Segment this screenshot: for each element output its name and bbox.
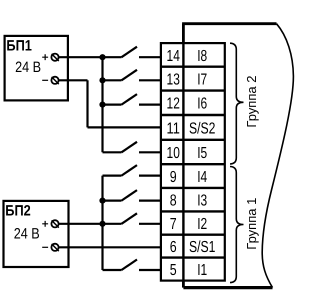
svg-text:24 В: 24 В — [15, 59, 41, 76]
svg-text:6: 6 — [170, 239, 177, 256]
svg-text:I6: I6 — [197, 96, 207, 113]
switch blade row 9 — [122, 165, 138, 176]
svg-text:I8: I8 — [197, 48, 207, 65]
wire switch to terminal 13 — [139, 79, 161, 81]
junction dot row 7 — [99, 221, 105, 227]
wire switch to terminal 7 — [139, 223, 161, 225]
switch blade row 12 — [122, 94, 138, 105]
svg-text:7: 7 — [170, 216, 177, 233]
wire bus bend to switch row 5 — [103, 269, 122, 271]
terminal block outer rect — [161, 43, 225, 281]
svg-text:12: 12 — [167, 96, 180, 113]
wire switch to terminal 12 — [139, 103, 161, 105]
wire row 11 (S/S2) — [88, 126, 161, 128]
minus sign BP1 — [42, 79, 48, 81]
svg-text:Группа 1: Группа 1 — [244, 198, 259, 250]
svg-text:I1: I1 — [197, 262, 207, 279]
terminal block column divider — [182, 43, 184, 281]
wire BP2+ to bus and switch row 7 — [59, 223, 122, 225]
wire switch to terminal 10 — [139, 151, 161, 153]
svg-text:I2: I2 — [197, 216, 207, 233]
wire bus to switch row 8 — [103, 200, 122, 202]
switch blade row 10 — [122, 142, 138, 153]
wire switch to terminal 9 — [139, 175, 161, 177]
bus group 2 vertical — [101, 57, 103, 152]
svg-text:11: 11 — [167, 120, 180, 137]
svg-text:S/S1: S/S1 — [189, 239, 215, 256]
svg-text:14: 14 — [167, 48, 180, 65]
plus sign BP2 — [42, 221, 48, 227]
switch blade row 8 — [122, 190, 138, 201]
svg-text:13: 13 — [167, 72, 180, 89]
svg-text:БП2: БП2 — [5, 202, 31, 219]
svg-text:Группа 2: Группа 2 — [244, 76, 259, 128]
terminal + of BP2 — [51, 220, 58, 227]
svg-text:9: 9 — [170, 169, 177, 186]
brace group 1 — [230, 167, 244, 283]
svg-text:8: 8 — [170, 193, 177, 210]
device torn edge curve — [262, 24, 293, 288]
wire bus to switch row 12 — [103, 103, 122, 105]
switch blade row 13 — [122, 70, 138, 81]
device outline top vertical — [182, 24, 185, 43]
terminal - of BP2 — [51, 244, 58, 251]
device outline top thick line — [182, 22, 276, 25]
svg-text:I3: I3 — [197, 193, 207, 210]
switch blade row 7 — [122, 213, 138, 224]
junction dot row 8 — [99, 198, 105, 204]
svg-text:I5: I5 — [197, 145, 207, 162]
brace group 2 — [230, 43, 244, 164]
minus sign BP2 — [42, 246, 48, 248]
power supply BP2 box — [4, 201, 69, 267]
terminal block row dividers — [161, 67, 225, 258]
junction dot row 12 — [99, 102, 105, 108]
wire BP2- to terminal 6 (S/S1) — [59, 246, 161, 248]
wire bus bend to switch row 10 — [103, 151, 122, 153]
device outline bottom vertical — [182, 281, 185, 288]
bus group 1 vertical — [101, 176, 103, 270]
svg-text:5: 5 — [170, 262, 177, 279]
switch blade row 5 — [122, 260, 138, 271]
svg-text:БП1: БП1 — [6, 38, 32, 55]
svg-text:S/S2: S/S2 — [189, 120, 215, 137]
wire BP1- right segment — [59, 79, 88, 81]
junction dot row 14 — [99, 54, 105, 60]
wire bus bend to switch row 9 — [103, 175, 122, 177]
device outline bottom thick line — [183, 286, 272, 289]
wire bus to switch row 13 — [103, 79, 122, 81]
terminal + of BP1 — [51, 54, 58, 61]
wire BP1- vertical drop — [86, 80, 88, 127]
wire BP1+ to bus and switch row 14 — [59, 56, 122, 58]
plus sign BP1 — [42, 54, 48, 60]
svg-text:24 В: 24 В — [14, 226, 40, 243]
svg-text:10: 10 — [167, 145, 180, 162]
wire switch to terminal 14 — [139, 56, 161, 58]
wire switch to terminal 5 — [139, 269, 161, 271]
svg-text:I4: I4 — [197, 169, 207, 186]
junction dot row 13 — [99, 77, 105, 83]
switch blade row 14 — [122, 47, 138, 58]
svg-text:I7: I7 — [197, 72, 207, 89]
power supply BP1 box — [5, 36, 68, 101]
wire switch to terminal 8 — [139, 200, 161, 202]
terminal - of BP1 — [51, 77, 58, 84]
